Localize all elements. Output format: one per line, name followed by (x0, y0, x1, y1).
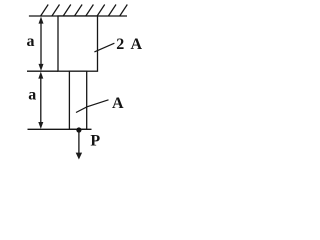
dimension line a (lower) (38, 72, 43, 129)
fixed support hatching (41, 5, 128, 17)
load application node (76, 127, 81, 132)
svg-text:a: a (27, 33, 35, 50)
wide bar 2A (58, 16, 98, 71)
force P arrow (76, 129, 82, 159)
svg-text:a: a (28, 87, 36, 104)
ceiling line (29, 15, 127, 17)
bottom end line (28, 128, 92, 130)
narrow bar A (69, 71, 86, 129)
leader line to 2A label (94, 43, 114, 52)
svg-text:A: A (130, 36, 142, 53)
svg-text:P: P (90, 133, 100, 150)
svg-text:2: 2 (116, 36, 124, 53)
svg-text:A: A (112, 95, 124, 112)
dimension line a (upper) (39, 17, 44, 71)
step extension line (27, 70, 58, 72)
leader line to A label (76, 100, 109, 113)
